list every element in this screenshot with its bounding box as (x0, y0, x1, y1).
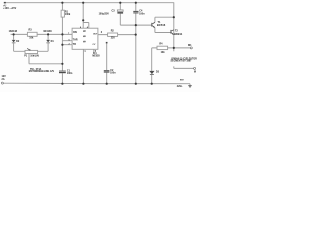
svg-text:10k/LIN: 10k/LIN (30, 55, 39, 58)
svg-text:MOTORREGELING 12V: MOTORREGELING 12V (29, 71, 55, 73)
svg-text:+10V...+15V: +10V...+15V (3, 7, 16, 10)
svg-text:220: 220 (111, 37, 116, 40)
svg-text:2A: 2A (2, 78, 5, 81)
svg-text:10k: 10k (161, 51, 166, 54)
svg-text:BD911: BD911 (174, 32, 183, 36)
svg-text:SEGMENT BV 1997: SEGMENT BV 1997 (171, 61, 193, 63)
svg-text:DIS: DIS (73, 32, 77, 34)
svg-text:100n: 100n (67, 72, 73, 75)
svg-text:nnr: nnr (180, 80, 184, 82)
svg-text:1N4148: 1N4148 (43, 30, 52, 33)
svg-text:BC516: BC516 (157, 23, 166, 27)
svg-text:TR: TR (73, 44, 76, 46)
svg-text:NE555: NE555 (92, 54, 100, 57)
svg-text:M1: M1 (188, 44, 192, 47)
svg-text:555: 555 (82, 30, 86, 46)
svg-text:THR: THR (73, 40, 78, 42)
svg-text:100µ/25V: 100µ/25V (99, 12, 110, 15)
svg-text:100n: 100n (139, 13, 145, 16)
svg-text:100k: 100k (65, 13, 71, 16)
svg-text:220n.: 220n. (177, 86, 183, 88)
svg-text:10k: 10k (29, 36, 34, 39)
svg-text:1N4148: 1N4148 (9, 30, 18, 33)
svg-text:M: M (194, 71, 196, 73)
svg-text:100n: 100n (110, 72, 116, 75)
